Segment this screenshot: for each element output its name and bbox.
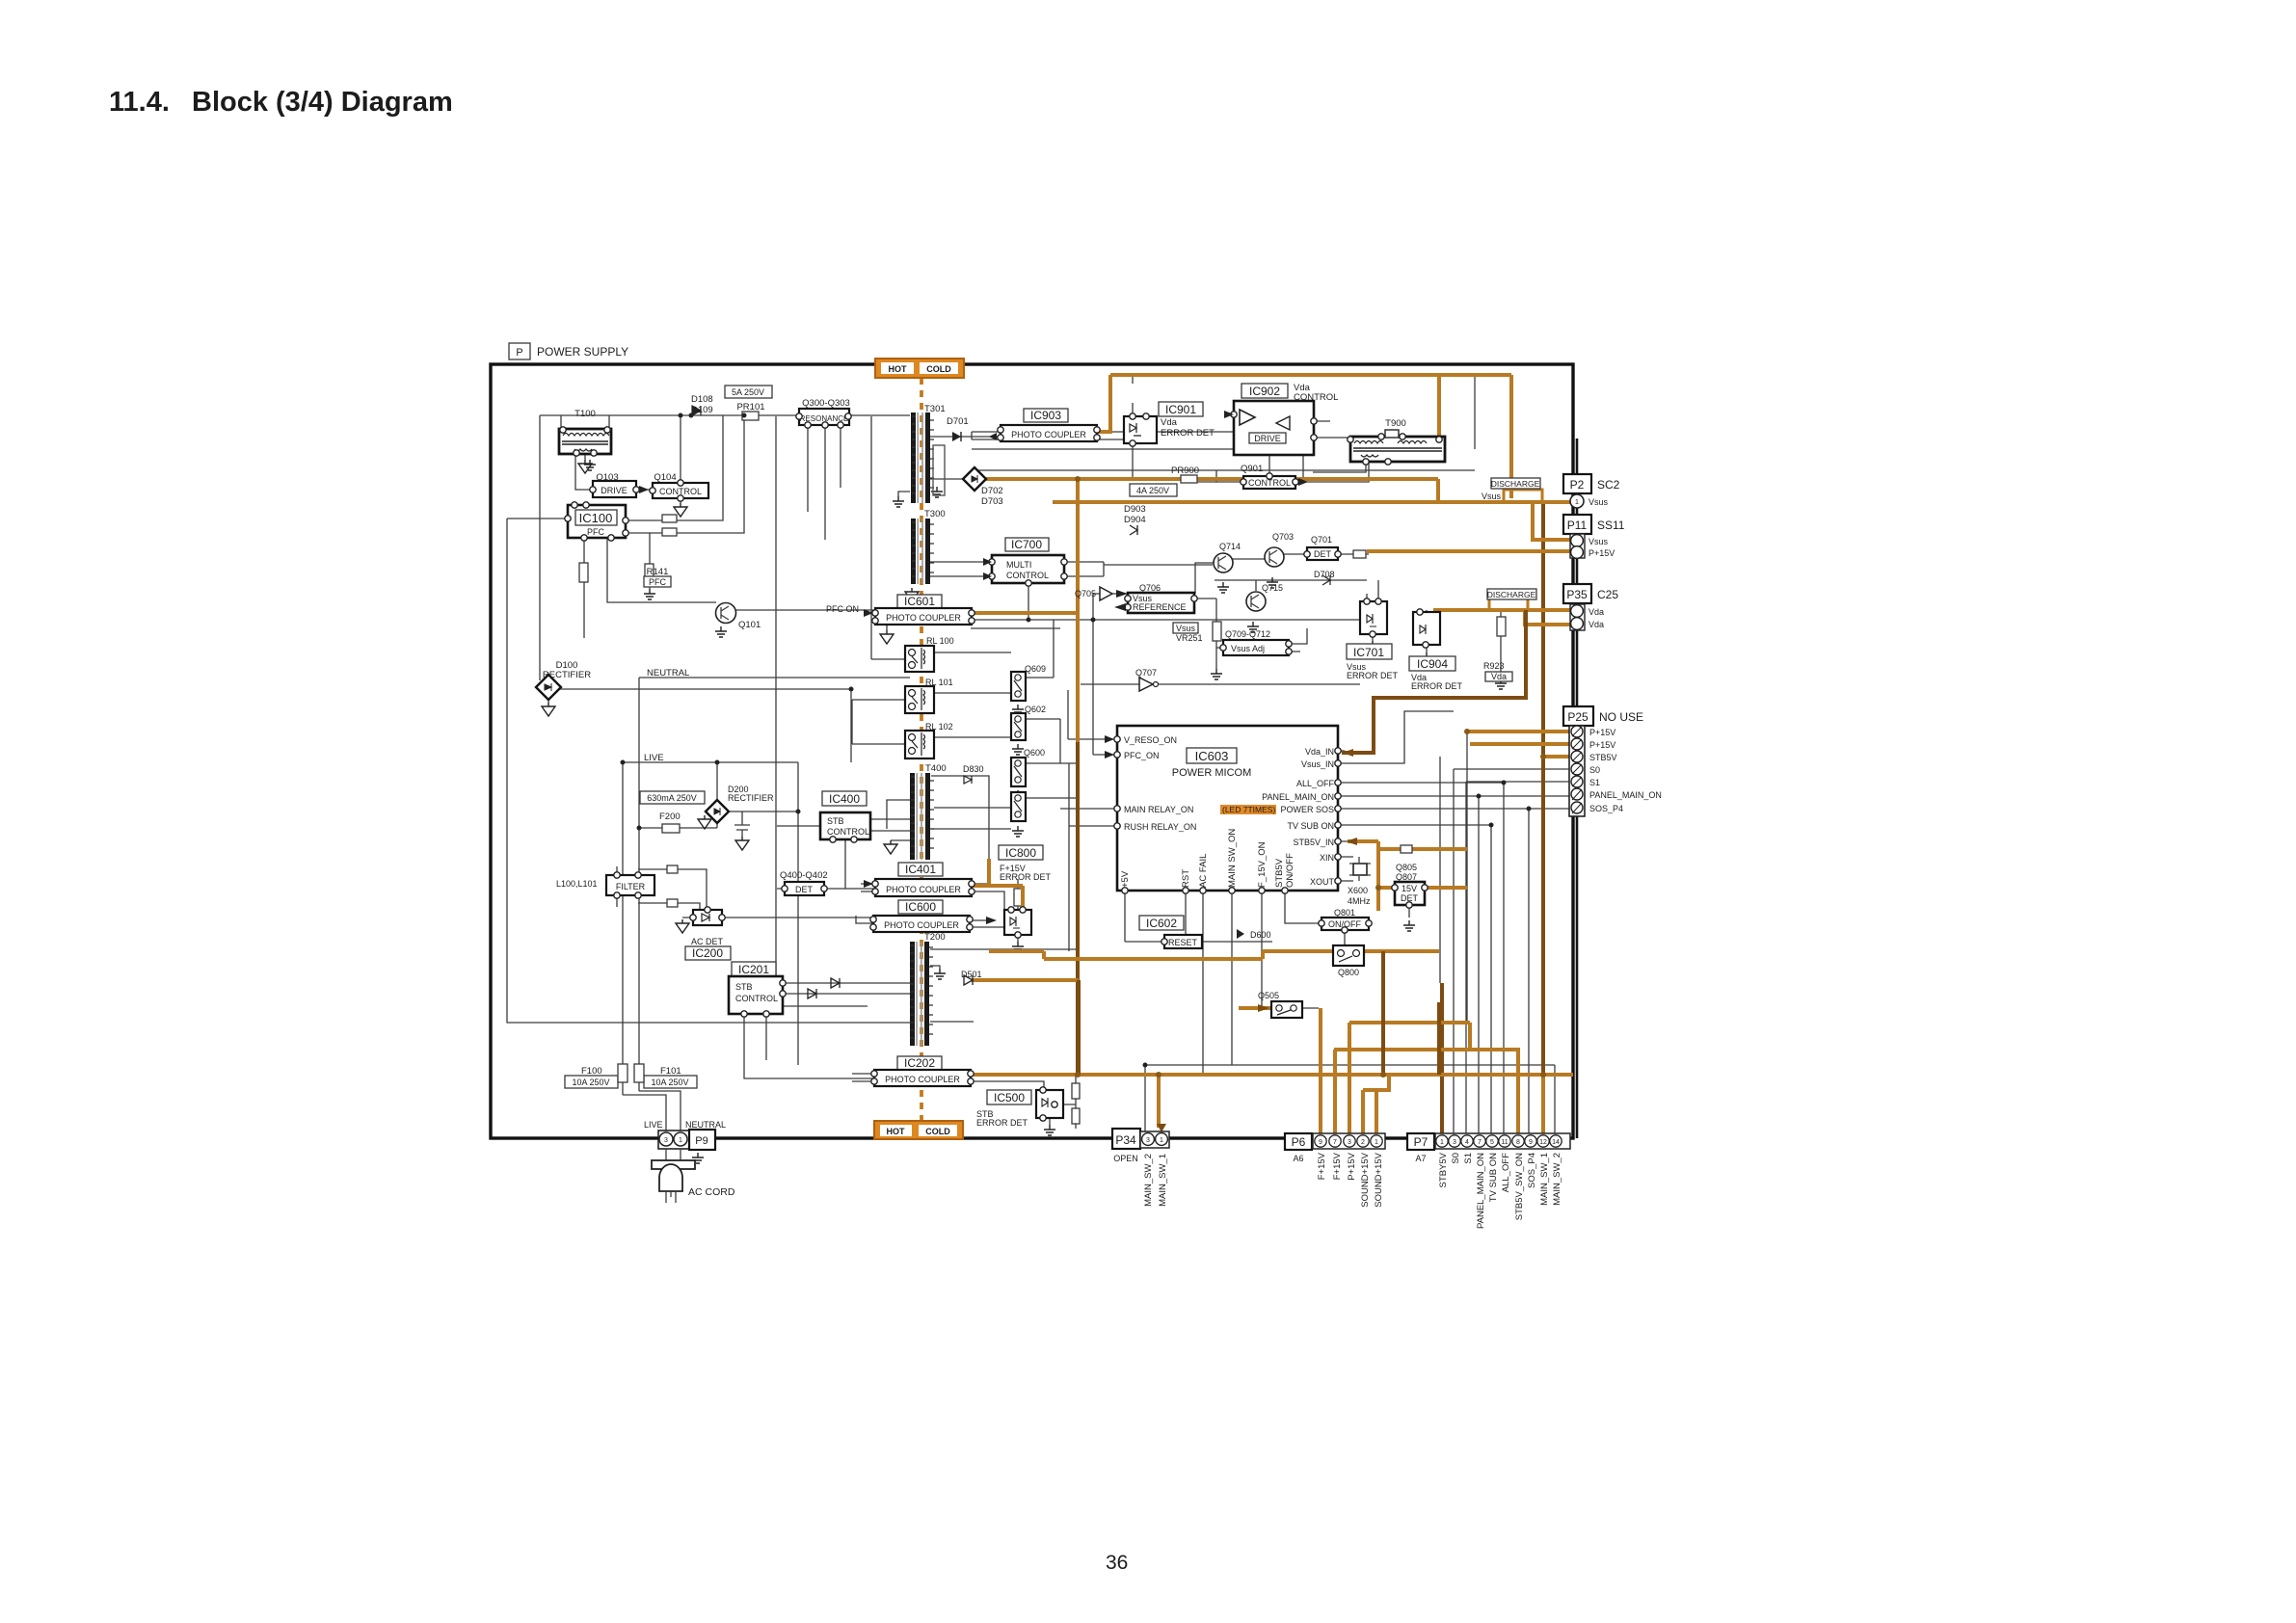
svg-text:D703: D703 — [981, 496, 1003, 507]
svg-text:RECTIFIER: RECTIFIER — [728, 793, 774, 803]
svg-text:IC100: IC100 — [579, 511, 613, 525]
svg-text:AC CORD: AC CORD — [688, 1186, 735, 1198]
svg-text:CONTROL: CONTROL — [827, 827, 869, 837]
svg-text:Q800: Q800 — [1338, 968, 1359, 977]
svg-text:IC500: IC500 — [994, 1091, 1025, 1104]
svg-text:PHOTO COUPLER: PHOTO COUPLER — [1011, 430, 1086, 439]
svg-text:Q709-Q712: Q709-Q712 — [1225, 629, 1270, 639]
svg-text:POWER SUPPLY: POWER SUPPLY — [537, 345, 628, 359]
svg-text:4: 4 — [1465, 1139, 1469, 1146]
svg-text:ERROR DET: ERROR DET — [1161, 428, 1215, 439]
svg-text:MAIN_SW_1: MAIN_SW_1 — [1158, 1154, 1168, 1207]
svg-text:Q715: Q715 — [1262, 583, 1283, 593]
svg-text:ERROR DET: ERROR DET — [1411, 681, 1463, 691]
svg-text:S0: S0 — [1589, 765, 1600, 775]
svg-text:DET: DET — [795, 885, 814, 894]
svg-text:IC904: IC904 — [1417, 657, 1448, 671]
svg-text:P7: P7 — [1414, 1135, 1428, 1149]
svg-text:XOUT: XOUT — [1310, 877, 1335, 887]
svg-text:1: 1 — [1575, 499, 1579, 506]
svg-text:12: 12 — [1539, 1139, 1547, 1146]
svg-text:Q706: Q706 — [1139, 583, 1161, 593]
svg-text:RL 100: RL 100 — [926, 636, 954, 646]
svg-text:STBY5V: STBY5V — [1438, 1152, 1449, 1187]
svg-text:14: 14 — [1552, 1139, 1560, 1146]
svg-text:IC201: IC201 — [738, 963, 769, 976]
svg-text:SOS_P4: SOS_P4 — [1527, 1153, 1537, 1188]
svg-text:IC401: IC401 — [905, 863, 936, 876]
svg-text:T300: T300 — [924, 509, 946, 519]
svg-text:Q104: Q104 — [654, 472, 676, 483]
svg-text:630mA 250V: 630mA 250V — [647, 793, 697, 803]
svg-text:MULTI: MULTI — [1006, 560, 1031, 570]
svg-text:D108: D108 — [691, 394, 713, 405]
svg-text:Q101: Q101 — [738, 620, 761, 630]
svg-text:NEUTRAL: NEUTRAL — [685, 1120, 726, 1130]
svg-text:7: 7 — [1478, 1139, 1482, 1146]
svg-text:S0: S0 — [1451, 1153, 1461, 1164]
svg-text:P+15V: P+15V — [1589, 728, 1615, 737]
svg-text:OPEN: OPEN — [1113, 1154, 1138, 1163]
svg-text:FILTER: FILTER — [616, 882, 646, 891]
svg-text:T400: T400 — [925, 763, 947, 774]
svg-text:Vda_IN: Vda_IN — [1305, 747, 1334, 757]
svg-text:PHOTO COUPLER: PHOTO COUPLER — [886, 613, 961, 623]
svg-text:Q609: Q609 — [1025, 664, 1046, 674]
svg-text:MAIN_SW_2: MAIN_SW_2 — [1552, 1153, 1562, 1206]
svg-text:V_RESO_ON: V_RESO_ON — [1124, 735, 1177, 745]
svg-text:ERROR DET: ERROR DET — [1347, 671, 1399, 680]
svg-text:IC901: IC901 — [1165, 403, 1196, 416]
svg-text:Q705: Q705 — [1075, 589, 1096, 599]
svg-text:D903: D903 — [1124, 504, 1146, 515]
svg-text:1: 1 — [1440, 1139, 1444, 1146]
svg-text:MAIN SW_ON: MAIN SW_ON — [1227, 829, 1238, 888]
svg-text:Q701: Q701 — [1311, 535, 1332, 545]
svg-text:RST: RST — [1181, 869, 1191, 888]
svg-text:AC FAIL: AC FAIL — [1198, 854, 1209, 888]
svg-text:T200: T200 — [924, 932, 946, 943]
svg-text:DRIVE: DRIVE — [1254, 434, 1281, 443]
svg-text:1: 1 — [1160, 1137, 1163, 1144]
svg-text:10A 250V: 10A 250V — [651, 1078, 688, 1087]
svg-text:PANEL_MAIN_ON: PANEL_MAIN_ON — [1589, 790, 1662, 800]
svg-text:Vda: Vda — [1589, 620, 1604, 629]
svg-text:D830: D830 — [963, 764, 984, 774]
svg-text:C25: C25 — [1597, 588, 1618, 601]
svg-text:PFC: PFC — [587, 527, 605, 537]
svg-text:P6: P6 — [1292, 1135, 1306, 1149]
svg-text:36: 36 — [1106, 1552, 1128, 1574]
svg-text:P11: P11 — [1567, 519, 1588, 532]
svg-text:HOT: HOT — [889, 364, 908, 374]
svg-text:POWER MICOM: POWER MICOM — [1172, 767, 1252, 779]
svg-text:IC701: IC701 — [1353, 646, 1384, 659]
svg-text:5A 250V: 5A 250V — [732, 387, 764, 397]
svg-text:Vsus: Vsus — [1176, 624, 1196, 633]
svg-text:DISCHARGE: DISCHARGE — [1487, 590, 1536, 599]
svg-text:SS11: SS11 — [1597, 519, 1625, 532]
svg-text:10A 250V: 10A 250V — [572, 1078, 609, 1087]
svg-text:A6: A6 — [1293, 1154, 1303, 1163]
svg-text:Vda: Vda — [1589, 607, 1604, 617]
svg-text:STB5V_IN: STB5V_IN — [1293, 838, 1334, 847]
svg-text:SOS_P4: SOS_P4 — [1589, 804, 1623, 813]
svg-text:1: 1 — [1375, 1139, 1378, 1146]
svg-text:L100,L101: L100,L101 — [556, 879, 598, 889]
svg-text:PFC: PFC — [649, 577, 667, 587]
svg-text:Q901: Q901 — [1241, 464, 1263, 474]
svg-text:P: P — [516, 347, 522, 359]
svg-text:CONTROL: CONTROL — [1006, 571, 1049, 580]
svg-text:S1: S1 — [1463, 1153, 1474, 1164]
svg-text:DISCHARGE: DISCHARGE — [1491, 479, 1540, 489]
svg-text:P9: P9 — [695, 1135, 707, 1147]
svg-text:STB: STB — [735, 982, 753, 992]
svg-text:PANEL_MAIN_ON: PANEL_MAIN_ON — [1476, 1153, 1486, 1229]
svg-text:Q600: Q600 — [1024, 748, 1045, 758]
svg-text:IC601: IC601 — [904, 595, 935, 608]
svg-text:S1: S1 — [1589, 778, 1600, 787]
svg-text:STB5V_SW_ON: STB5V_SW_ON — [1514, 1153, 1525, 1220]
svg-text:PFC ON: PFC ON — [826, 604, 859, 614]
svg-text:1: 1 — [679, 1137, 682, 1144]
svg-text:IC903: IC903 — [1030, 409, 1061, 422]
svg-text:IC602: IC602 — [1146, 917, 1177, 930]
svg-text:D702: D702 — [981, 486, 1003, 496]
svg-text:Q707: Q707 — [1135, 668, 1157, 678]
svg-text:Vda: Vda — [1491, 672, 1507, 681]
svg-text:Q505: Q505 — [1258, 991, 1279, 1000]
svg-text:Vsus: Vsus — [1482, 492, 1502, 501]
svg-text:IC700: IC700 — [1011, 538, 1042, 551]
svg-text:STB5V: STB5V — [1274, 858, 1285, 888]
svg-text:P+15V: P+15V — [1589, 740, 1615, 750]
svg-text:ALL_OFF: ALL_OFF — [1296, 779, 1335, 788]
svg-text:7: 7 — [1333, 1139, 1337, 1146]
svg-text:IC600: IC600 — [905, 900, 936, 914]
svg-text:MAIN_SW_1: MAIN_SW_1 — [1539, 1153, 1550, 1206]
svg-text:DRIVE: DRIVE — [601, 486, 627, 495]
svg-text:T900: T900 — [1385, 418, 1406, 429]
svg-text:STB: STB — [827, 816, 844, 826]
svg-text:Q602: Q602 — [1025, 705, 1046, 714]
svg-text:F_15V_ON: F_15V_ON — [1257, 841, 1268, 888]
svg-text:Vda: Vda — [1161, 417, 1178, 428]
svg-text:POWER SOS: POWER SOS — [1280, 805, 1334, 814]
svg-text:3: 3 — [1348, 1139, 1351, 1146]
svg-text:F+15V: F+15V — [1317, 1152, 1327, 1180]
svg-text:Q801: Q801 — [1334, 908, 1355, 918]
svg-text:4MHz: 4MHz — [1348, 896, 1371, 906]
svg-text:TV SUB ON: TV SUB ON — [1287, 821, 1334, 831]
svg-text:SOUND+15V: SOUND+15V — [1360, 1152, 1371, 1207]
svg-text:IC200: IC200 — [692, 946, 723, 960]
svg-text:RESET: RESET — [1168, 938, 1198, 947]
svg-text:11.4.: 11.4. — [109, 87, 170, 118]
svg-text:VR251: VR251 — [1176, 633, 1203, 643]
svg-text:IC400: IC400 — [829, 792, 860, 806]
svg-text:5: 5 — [1490, 1139, 1494, 1146]
svg-text:9: 9 — [1319, 1139, 1322, 1146]
svg-text:Q805: Q805 — [1396, 863, 1417, 872]
svg-text:D708: D708 — [1314, 570, 1335, 579]
svg-text:Q714: Q714 — [1219, 542, 1241, 551]
svg-text:PFC_ON: PFC_ON — [1124, 751, 1160, 760]
svg-text:CONTROL: CONTROL — [735, 994, 778, 1003]
svg-text:F101: F101 — [660, 1066, 681, 1077]
svg-text:PANEL_MAIN_ON: PANEL_MAIN_ON — [1262, 792, 1334, 802]
svg-text:REFERENCE: REFERENCE — [1133, 602, 1187, 612]
svg-text:P2: P2 — [1570, 478, 1585, 492]
svg-text:A7: A7 — [1415, 1154, 1426, 1163]
svg-text:2: 2 — [1361, 1139, 1365, 1146]
svg-text:P25: P25 — [1567, 710, 1589, 724]
svg-text:Vsus: Vsus — [1589, 497, 1609, 507]
svg-text:4A 250V: 4A 250V — [1136, 486, 1169, 495]
svg-text:IC603: IC603 — [1195, 749, 1229, 763]
svg-text:PHOTO COUPLER: PHOTO COUPLER — [886, 885, 961, 894]
svg-text:11: 11 — [1501, 1139, 1508, 1146]
svg-text:9: 9 — [1529, 1139, 1533, 1146]
svg-text:R141: R141 — [647, 567, 669, 577]
svg-text:XIN: XIN — [1320, 853, 1334, 863]
svg-text:ON/OFF: ON/OFF — [1285, 853, 1295, 888]
svg-text:ERROR DET: ERROR DET — [1000, 872, 1052, 882]
svg-text:F100: F100 — [581, 1066, 602, 1077]
svg-text:Vsus: Vsus — [1589, 537, 1609, 546]
svg-text:D600: D600 — [1250, 930, 1271, 940]
svg-text:3: 3 — [1146, 1137, 1150, 1144]
svg-text:ALL_OFF: ALL_OFF — [1501, 1153, 1511, 1192]
svg-text:RUSH RELAY_ON: RUSH RELAY_ON — [1124, 822, 1196, 832]
svg-text:DET: DET — [1314, 549, 1332, 559]
svg-text:COLD: COLD — [925, 1127, 950, 1136]
svg-text:P+15V: P+15V — [1589, 548, 1615, 558]
svg-text:IC202: IC202 — [904, 1056, 935, 1070]
svg-text:IC800: IC800 — [1005, 846, 1036, 860]
svg-text:3: 3 — [1453, 1139, 1456, 1146]
svg-text:D904: D904 — [1124, 515, 1146, 525]
svg-text:D701: D701 — [947, 416, 969, 427]
svg-text:15V: 15V — [1402, 884, 1417, 893]
svg-text:IC902: IC902 — [1249, 385, 1280, 398]
svg-text:TV SUB ON: TV SUB ON — [1488, 1153, 1499, 1202]
svg-text:NO USE: NO USE — [1599, 710, 1643, 724]
svg-text:STB5V: STB5V — [1589, 753, 1617, 762]
svg-text:T100: T100 — [574, 409, 596, 419]
svg-text:P+15V: P+15V — [1347, 1152, 1357, 1180]
svg-text:SOUND+15V: SOUND+15V — [1374, 1152, 1384, 1207]
svg-text:ERROR DET: ERROR DET — [976, 1118, 1028, 1128]
svg-text:P34: P34 — [1115, 1133, 1136, 1147]
svg-text:SC2: SC2 — [1597, 478, 1620, 492]
svg-text:Q703: Q703 — [1272, 532, 1294, 542]
svg-text:Q400-Q402: Q400-Q402 — [780, 870, 828, 881]
svg-text:PHOTO COUPLER: PHOTO COUPLER — [884, 920, 959, 930]
svg-text:COLD: COLD — [926, 364, 951, 374]
svg-text:R923: R923 — [1483, 661, 1505, 671]
svg-text:PHOTO COUPLER: PHOTO COUPLER — [885, 1075, 960, 1084]
svg-text:Q807: Q807 — [1396, 872, 1417, 882]
svg-text:HOT: HOT — [887, 1127, 906, 1136]
svg-text:AC DET: AC DET — [691, 937, 724, 946]
svg-text:Q300-Q303: Q300-Q303 — [802, 398, 850, 409]
svg-text:(LED 7TIMES): (LED 7TIMES) — [1222, 805, 1275, 814]
svg-text:+5V: +5V — [1120, 870, 1131, 888]
svg-text:Vsus Adj: Vsus Adj — [1231, 644, 1265, 653]
svg-text:LIVE: LIVE — [644, 753, 664, 763]
svg-text:P35: P35 — [1566, 588, 1588, 601]
svg-text:8: 8 — [1516, 1139, 1520, 1146]
svg-text:LIVE: LIVE — [644, 1120, 663, 1130]
svg-text:MAIN RELAY_ON: MAIN RELAY_ON — [1124, 805, 1193, 814]
svg-text:NEUTRAL: NEUTRAL — [647, 668, 689, 678]
svg-text:F+15V: F+15V — [1332, 1152, 1343, 1180]
svg-text:MAIN_SW_2: MAIN_SW_2 — [1143, 1154, 1154, 1207]
svg-text:F200: F200 — [659, 811, 681, 822]
svg-text:3: 3 — [664, 1137, 668, 1144]
svg-text:Block (3/4) Diagram: Block (3/4) Diagram — [192, 87, 453, 118]
svg-text:Vsus_IN: Vsus_IN — [1301, 759, 1334, 769]
svg-text:X600: X600 — [1348, 886, 1368, 895]
